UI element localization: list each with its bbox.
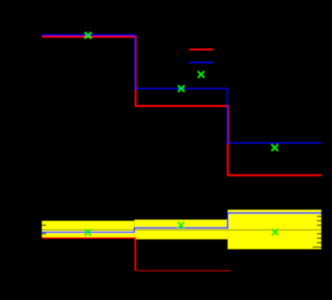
green X marker lower 1 xyxy=(85,229,92,236)
right axis minor tic 6 xyxy=(317,242,321,243)
green X marker legend xyxy=(198,71,205,78)
legend blue sample xyxy=(189,61,213,63)
red lower step line dark part xyxy=(136,270,230,272)
green X marker upper 3 xyxy=(271,144,278,151)
legend red sample xyxy=(189,49,213,51)
left axis minor tic 2 xyxy=(42,233,46,234)
blue lower step line xyxy=(42,213,322,232)
yellow box segment 3 xyxy=(228,210,322,250)
red lower step line bright part xyxy=(42,238,136,271)
green X marker lower 3 xyxy=(272,229,279,236)
yellow box segment 2 xyxy=(134,220,227,240)
grid line y major tic xyxy=(42,229,322,230)
green X marker upper 2 xyxy=(178,85,185,92)
green X marker upper 1 xyxy=(85,32,92,39)
yellow box segment 1 xyxy=(42,221,135,238)
green X marker lower 2 xyxy=(178,222,185,229)
right axis minor tic 1 xyxy=(317,216,321,217)
right axis minor tic 4 xyxy=(317,233,321,234)
left axis minor tic 1 xyxy=(42,225,46,226)
right axis minor tic 5 xyxy=(317,238,321,239)
right axis minor tic 3 xyxy=(317,225,321,226)
red upper step line xyxy=(42,37,322,176)
right axis major tic xyxy=(313,247,322,248)
right axis minor tic 2 xyxy=(317,220,321,221)
blue upper step line xyxy=(42,35,322,143)
